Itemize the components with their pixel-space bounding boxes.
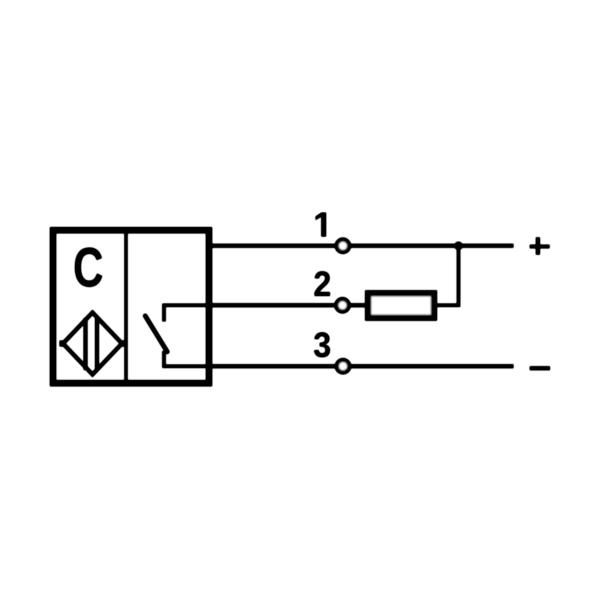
svg-text:3: 3 <box>313 327 331 366</box>
switch lower stub <box>164 351 212 366</box>
capacitive sensor diamond <box>63 313 122 375</box>
svg-text:2: 2 <box>313 266 331 305</box>
capacitor plate left <box>84 318 88 370</box>
switch upper contact with stub <box>164 305 212 321</box>
terminal 1 <box>337 240 349 252</box>
wire 1 <box>209 244 514 248</box>
minus terminal <box>530 366 550 370</box>
pin label 1 <box>316 213 327 237</box>
plus terminal <box>530 237 550 254</box>
compartment divider <box>124 230 127 380</box>
junction dot <box>454 242 462 250</box>
sensor box U1 <box>53 230 209 383</box>
wire from resistor to junction <box>435 246 459 305</box>
switch blade <box>145 316 167 352</box>
svg-text:C: C <box>73 237 103 299</box>
wire 3 <box>209 364 514 368</box>
left stub of diamond <box>60 341 67 347</box>
terminal 3 <box>337 360 349 372</box>
wire 2 <box>209 303 369 307</box>
capacitor plate right <box>95 318 99 370</box>
terminal 2 <box>336 299 348 311</box>
right stub of diamond <box>119 341 127 347</box>
load resistor RL <box>368 293 434 317</box>
